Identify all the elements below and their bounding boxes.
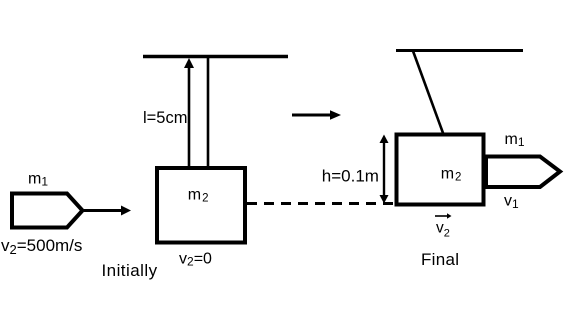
svg-text:m1: m1 bbox=[28, 171, 48, 189]
svg-text:m1: m1 bbox=[505, 131, 525, 149]
svg-text:v1: v1 bbox=[504, 193, 519, 212]
svg-text:Final: Final bbox=[421, 250, 459, 269]
svg-text:h=0.1m: h=0.1m bbox=[322, 167, 379, 186]
svg-text:l=5cm: l=5cm bbox=[143, 109, 187, 127]
svg-text:v2=500m/s: v2=500m/s bbox=[1, 236, 82, 257]
svg-text:Initially: Initially bbox=[102, 261, 158, 280]
svg-text:v2: v2 bbox=[436, 220, 450, 240]
svg-text:v2=0: v2=0 bbox=[179, 251, 212, 269]
